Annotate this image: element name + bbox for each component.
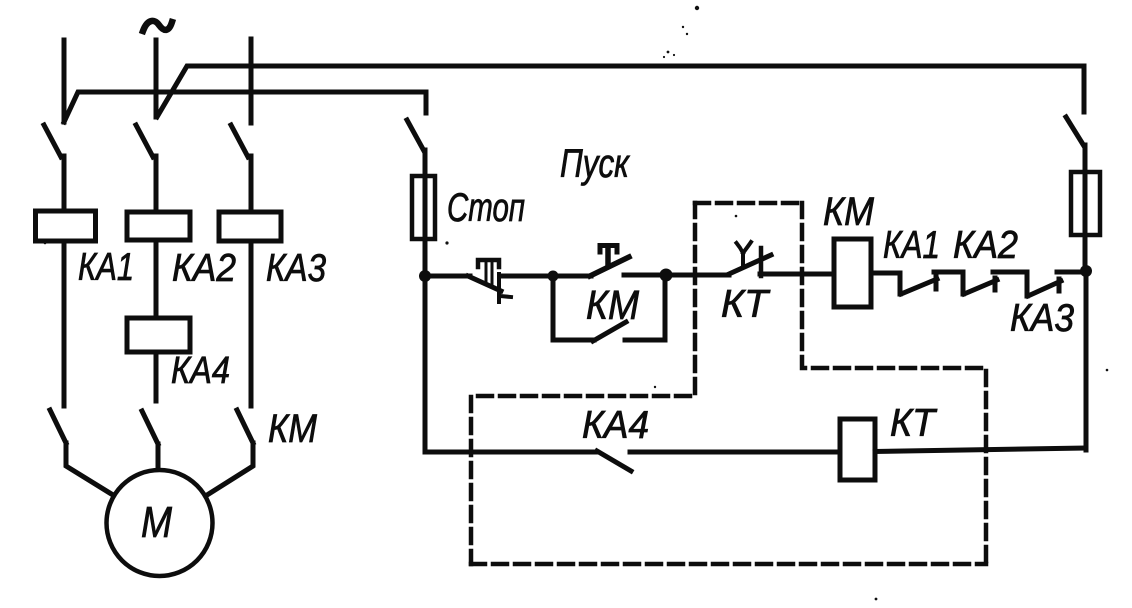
relay coil KA4 (127, 318, 190, 352)
relay coil KA3 (219, 212, 281, 241)
wire left vertical down (423, 276, 428, 452)
wire below QS pole 1 (62, 156, 67, 211)
wire bottom line left of KA4 (425, 450, 597, 455)
svg-text:КМ: КМ (268, 407, 318, 451)
svg-text:КА2: КА2 (172, 247, 236, 290)
relay contact KA1 (900, 273, 937, 294)
contactor coil KM (834, 239, 871, 307)
node junction B (660, 269, 673, 282)
svg-text:КМ: КМ (823, 190, 875, 234)
wire below QS pole 3 (249, 156, 254, 212)
svg-text:КА2: КА2 (953, 224, 1018, 267)
disconnect switch QS pole 1 (44, 125, 61, 157)
wire below QS pole 2 (154, 156, 159, 212)
wire phase L2 below KA4 (154, 352, 159, 401)
wire KT contact to KM coil (760, 272, 834, 277)
SB2 actuator stem (605, 246, 611, 266)
wire through left fuse (423, 150, 428, 276)
svg-text:Пуск: Пуск (560, 142, 631, 186)
svg-text:КА1: КА1 (883, 224, 940, 267)
wire phase L1 vertical top (62, 40, 67, 122)
switch blade right control branch (1066, 117, 1084, 146)
relay contact KA3 (1027, 272, 1061, 296)
SB2 actuator T (600, 246, 617, 253)
svg-text:М: М (141, 498, 172, 547)
switch blade left control branch (407, 120, 424, 151)
wire phase L1 below KA1 (62, 241, 67, 406)
wire lower control bus (taps phase L1, runs to left fuse branch) (64, 92, 426, 122)
relay coil KA1 (36, 211, 96, 241)
wire KA4 to KT coil (630, 450, 840, 455)
relay contact KA4 blade (597, 451, 631, 471)
dashed link top (695, 201, 802, 206)
wire Start to KT contact (624, 273, 729, 278)
node junction right (1080, 265, 1092, 277)
dashed mechanical link left leg (471, 203, 695, 564)
svg-text:КА1: КА1 (78, 246, 134, 289)
wire phase L3 vertical top (249, 39, 254, 123)
contactor KM main contact pole 3 (237, 410, 253, 443)
SB1 fixed contact bar (499, 274, 511, 302)
fuse FU1 (412, 176, 435, 239)
wire pole 1 to motor (66, 443, 113, 495)
svg-text:КА4: КА4 (582, 404, 649, 447)
dashed link bottom (471, 562, 986, 567)
wire through right fuse (1083, 145, 1088, 271)
wire KA2 to KA3 contact (993, 270, 1027, 275)
svg-text:КА4: КА4 (171, 350, 230, 392)
wire phase L2 vertical top (154, 40, 159, 117)
wire main line to Stop button (425, 274, 470, 279)
wire pole 2 to motor (156, 444, 161, 470)
dashed mechanical link right leg (802, 203, 986, 564)
svg-text:КТ: КТ (721, 283, 771, 326)
SB1 actuator stem (486, 262, 492, 285)
fuse FU2 (1071, 172, 1100, 235)
KT time contact blade (729, 255, 771, 274)
KT fixed contact bar (759, 248, 764, 276)
wire KA3 to right node (1057, 270, 1086, 275)
svg-text:Стоп: Стоп (447, 186, 525, 230)
relay coil KA2 (127, 212, 190, 240)
wire phase L3 below KA3 (249, 241, 254, 406)
wire pole 3 to motor (207, 443, 253, 495)
motor M circle (107, 470, 213, 576)
SB1 actuator T (478, 260, 499, 267)
wire upper control bus (taps phase L2, runs to right fuse branch) (157, 66, 1084, 117)
wire right vertical down (1084, 271, 1089, 450)
svg-text:КА3: КА3 (266, 247, 326, 290)
KT time-delay symbol (737, 242, 752, 264)
time relay coil KT (840, 419, 875, 480)
KM aux contact blade (593, 322, 626, 341)
node junction A (548, 271, 559, 282)
pushbutton SB2 Start NO contact blade (590, 257, 629, 276)
svg-text:КА3: КА3 (1010, 297, 1074, 340)
relay contact KA2 (963, 272, 997, 294)
disconnect switch QS pole 2 (136, 125, 153, 157)
contactor KM main contact pole 2 (142, 411, 158, 444)
wire KA1 to KA2 contact (934, 270, 963, 275)
pushbutton SB1 Stop NC contact blade (468, 276, 501, 291)
wire KM coil to KA1 contact (871, 271, 900, 276)
disconnect switch QS pole 3 (231, 125, 248, 157)
wire phase L2 below KA2 (154, 240, 159, 318)
KM auxiliary self-holding contact branch (553, 276, 665, 340)
svg-text:КТ: КТ (890, 402, 938, 445)
svg-text:КМ: КМ (586, 282, 640, 328)
node junction left (419, 270, 431, 282)
tilde AC source symbol (143, 21, 172, 31)
contactor KM main contact pole 1 (50, 410, 66, 443)
wire Stop to Start (503, 274, 591, 279)
wire KT coil to right (875, 448, 1084, 452)
